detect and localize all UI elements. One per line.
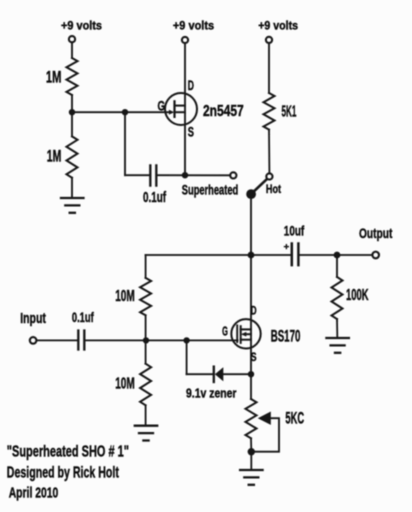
svg-text:1M: 1M <box>46 68 62 87</box>
svg-text:BS170: BS170 <box>271 327 301 345</box>
potentiometer VR1 5KC <box>246 399 305 452</box>
svg-text:+9 volts: +9 volts <box>258 18 298 32</box>
capacitor C3 0.1uf input <box>72 310 94 350</box>
wire gate row of Q2 <box>85 339 237 341</box>
svg-text:Output: Output <box>359 225 393 241</box>
wire <box>250 374 252 399</box>
wire <box>187 373 213 375</box>
switch terminal Superheated <box>182 172 238 197</box>
wire gate row <box>72 111 170 113</box>
resistor R6 10M lower <box>145 340 147 363</box>
wire <box>268 43 270 93</box>
ground G2 <box>326 338 349 353</box>
switch terminal Hot <box>266 173 281 196</box>
svg-text:5KC: 5KC <box>285 408 304 427</box>
wire output row left <box>146 254 291 256</box>
node junction J9 <box>249 449 255 455</box>
switch lever SW1 <box>252 179 267 194</box>
wire <box>71 178 73 197</box>
node junction J2 drop wire <box>124 112 126 175</box>
resistor R1 1M <box>46 58 78 95</box>
wire <box>145 315 147 340</box>
node junction J5 <box>335 253 340 258</box>
svg-text:10uf: 10uf <box>284 223 305 239</box>
svg-text:G: G <box>158 98 166 114</box>
svg-text:0.1uf: 0.1uf <box>143 190 166 206</box>
svg-text:D: D <box>188 78 194 94</box>
wire <box>336 319 338 337</box>
switch common junction dot <box>247 190 255 198</box>
resistor R5 10M upper <box>145 255 147 278</box>
transistor Q1 2n5457 JFET <box>165 93 244 125</box>
resistor R3 5K1 <box>264 93 297 130</box>
wire <box>71 42 73 58</box>
svg-text:9.1v zener: 9.1v zener <box>186 386 237 401</box>
node junction J1 <box>70 110 75 115</box>
ground G4 <box>240 470 263 485</box>
resistor R4 100K <box>336 255 338 277</box>
svg-text:+9 volts: +9 volts <box>61 18 102 32</box>
capacitor C2 10uf polarized <box>284 223 305 265</box>
svg-text:Hot: Hot <box>266 182 281 196</box>
node junction J6 <box>144 338 149 343</box>
wire <box>145 405 147 424</box>
svg-text:10M: 10M <box>115 288 135 305</box>
node junction J3 source node <box>183 173 188 178</box>
node junction J4 <box>249 253 254 258</box>
svg-text:Superheated: Superheated <box>182 183 238 198</box>
wire <box>157 174 230 176</box>
svg-text:2n5457: 2n5457 <box>203 103 244 120</box>
svg-text:0.1uf: 0.1uf <box>72 310 94 325</box>
wire <box>125 174 149 176</box>
node junction J8 <box>249 372 254 377</box>
output terminal <box>359 225 393 258</box>
wire <box>300 254 373 256</box>
svg-text:S: S <box>188 125 194 141</box>
svg-text:G: G <box>222 324 228 339</box>
transistor Q2 BS170 MOSFET <box>231 319 300 348</box>
diode D1 9.1v zener <box>186 367 237 401</box>
svg-text:5K1: 5K1 <box>282 103 297 120</box>
svg-text:10M: 10M <box>115 375 135 392</box>
svg-text:D: D <box>251 303 257 317</box>
capacitor C1 0.1uf <box>143 165 166 206</box>
wire zener branch <box>186 340 188 374</box>
input terminal <box>20 310 46 344</box>
svg-text:April 2010: April 2010 <box>9 484 59 501</box>
svg-text:Designed by Rick Holt: Designed by Rick Holt <box>7 464 120 481</box>
wire drain-source line of Q1 <box>184 43 186 175</box>
svg-text:1M: 1M <box>47 146 62 165</box>
wire <box>71 95 73 136</box>
svg-text:+9 volts: +9 volts <box>173 19 214 33</box>
wire main trunk <box>250 194 252 374</box>
wire <box>268 130 270 174</box>
wire <box>250 452 252 469</box>
power terminal +9V (left) <box>61 18 102 42</box>
svg-text:S: S <box>251 350 257 364</box>
wire <box>223 373 251 375</box>
node junction J2 <box>123 110 128 115</box>
svg-text:"Superheated SHO # 1": "Superheated SHO # 1" <box>7 444 129 461</box>
svg-text:100K: 100K <box>346 287 369 304</box>
power terminal +9V (right) <box>258 18 298 43</box>
ground G1 <box>61 198 84 213</box>
wire <box>36 339 77 341</box>
wire <box>250 438 252 451</box>
resistor R2 1M <box>47 136 78 177</box>
svg-text:Input: Input <box>20 310 46 327</box>
node junction J7 <box>184 338 189 343</box>
power terminal +9V (middle) <box>173 19 214 44</box>
ground G3 <box>135 426 157 441</box>
